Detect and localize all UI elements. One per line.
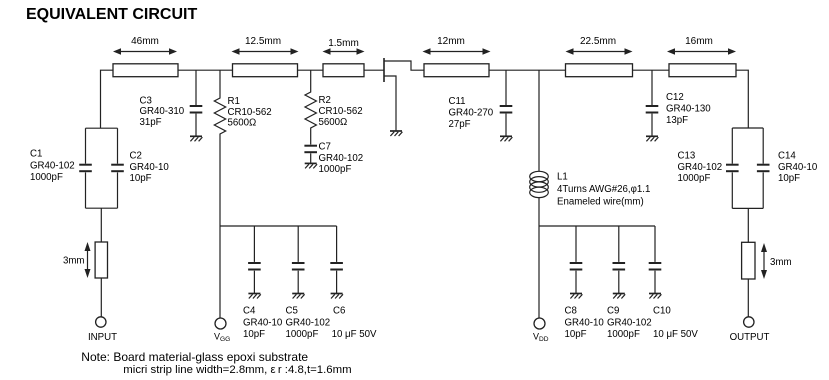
VGG rail bar [220, 225, 337, 227]
wire: rail to VDD terminal [538, 226, 540, 318]
transistor Q1 collector lead [384, 61, 424, 70]
wire: 22.5mm line to 16mm line [633, 69, 669, 71]
label C5 [286, 306, 331, 341]
capacitor C5 [292, 226, 305, 294]
INPUT terminal [96, 317, 106, 327]
wire: 12.5mm line to 1.5mm line [298, 69, 324, 71]
ground (transistor emitter) [390, 131, 402, 136]
transistor Q1 bar [383, 58, 385, 82]
label C11 [449, 96, 494, 130]
svg-text:C8: C8 [565, 306, 577, 317]
svg-text:C6: C6 [333, 306, 345, 317]
microstrip line 12mm [424, 64, 489, 77]
ground (C6) [331, 294, 343, 299]
capacitor C3 [190, 70, 203, 136]
dimension 22.5mm [566, 36, 633, 55]
svg-text:GR40-310: GR40-310 [140, 106, 185, 117]
wire: input corner to 46mm line [101, 70, 114, 128]
ground (C7) [305, 163, 317, 168]
svg-text:1000pF: 1000pF [286, 329, 319, 340]
svg-text:GR40-10: GR40-10 [778, 162, 818, 173]
svg-text:OUTPUT: OUTPUT [730, 332, 770, 343]
dimension 12.5mm [232, 36, 299, 55]
svg-text:C5: C5 [286, 306, 298, 317]
svg-text:GR40-102: GR40-102 [678, 162, 723, 173]
svg-text:Note: Board material-glass epo: Note: Board material-glass epoxi substra… [81, 350, 308, 364]
dimension 12mm [423, 36, 491, 55]
svg-text:5600Ω: 5600Ω [228, 118, 257, 129]
svg-text:C9: C9 [607, 306, 619, 317]
label C13 [678, 151, 723, 185]
resistor R2 [305, 70, 316, 144]
svg-text:46mm: 46mm [131, 36, 159, 47]
ground (C12) [646, 136, 658, 141]
label L1 [557, 172, 650, 208]
svg-text:16mm: 16mm [685, 36, 713, 47]
label C12 [666, 92, 711, 126]
wire: block to 3mm stub [100, 208, 102, 242]
transistor Q1 emitter lead [384, 76, 396, 131]
svg-text:10pF: 10pF [778, 173, 800, 184]
svg-text:13pF: 13pF [666, 115, 688, 126]
svg-text:EQUIVALENT CIRCUIT: EQUIVALENT CIRCUIT [26, 6, 197, 23]
svg-text:4Turns AWG#26,φ1.1: 4Turns AWG#26,φ1.1 [557, 184, 650, 195]
capacitor C12 [646, 70, 659, 136]
wire: 16mm line to output corner [736, 70, 748, 128]
svg-text:1000pF: 1000pF [607, 329, 640, 340]
svg-text:CR10-562: CR10-562 [228, 107, 272, 118]
wire: 1.5mm line to transistor base [364, 69, 384, 71]
svg-text:5600Ω: 5600Ω [319, 117, 348, 128]
svg-text:12.5mm: 12.5mm [245, 36, 281, 47]
svg-text:27pF: 27pF [449, 119, 471, 130]
svg-text:C3: C3 [140, 96, 152, 107]
output parallel block bottom bar [732, 207, 763, 209]
label C8 [565, 306, 605, 341]
svg-text:GR40-10: GR40-10 [130, 162, 170, 173]
svg-text:GR40-10: GR40-10 [243, 318, 283, 329]
wire: 46mm line to 12.5mm line [178, 69, 233, 71]
capacitor C4 [248, 226, 261, 294]
label C9 [607, 306, 652, 341]
label C7 [319, 142, 364, 176]
capacitor C1 [79, 128, 92, 208]
microstrip line 1.5mm [323, 64, 364, 77]
svg-text:GR40-102: GR40-102 [607, 318, 652, 329]
svg-text:12mm: 12mm [437, 36, 465, 47]
microstrip line 46mm [113, 64, 178, 77]
inductor L1 [530, 70, 549, 226]
svg-text:31pF: 31pF [140, 117, 162, 128]
dimension 46mm [113, 36, 177, 55]
ground (C9) [613, 294, 625, 299]
svg-text:C12: C12 [666, 92, 684, 103]
svg-text:10 μF 50V: 10 μF 50V [332, 329, 377, 340]
label C10 [653, 306, 698, 341]
label C1 [30, 149, 75, 184]
svg-text:micri strip line width=2.8mm,: micri strip line width=2.8mm, ε r :4.8,t… [123, 364, 351, 376]
output parallel block C13/C14 top bar [732, 127, 763, 129]
wire: rail to VGG terminal [219, 226, 221, 318]
ground (C8) [570, 294, 582, 299]
svg-text:1000pF: 1000pF [678, 173, 711, 184]
microstrip line 12.5mm [233, 64, 298, 77]
svg-text:1000pF: 1000pF [30, 172, 63, 183]
3mm microstrip stub (input) [95, 242, 107, 278]
svg-text:3mm: 3mm [770, 257, 792, 268]
svg-text:1.5mm: 1.5mm [328, 38, 359, 49]
dimension 1.5mm [323, 38, 365, 55]
capacitor C14 [757, 128, 770, 208]
label C2 [130, 151, 170, 185]
wire: 3mm stub to OUTPUT terminal [747, 279, 749, 317]
svg-text:GR40-102: GR40-102 [319, 153, 364, 164]
svg-text:C7: C7 [319, 142, 331, 153]
capacitor C9 [613, 226, 626, 294]
VDD rail bar [539, 225, 655, 227]
svg-text:C10: C10 [653, 306, 671, 317]
ground (C3) [190, 136, 202, 141]
svg-text:R2: R2 [319, 95, 331, 106]
svg-text:C14: C14 [778, 151, 796, 162]
capacitor C7 [304, 146, 317, 164]
microstrip line 16mm [669, 64, 736, 77]
svg-text:1000pF: 1000pF [319, 164, 352, 175]
input parallel block bottom bar [86, 207, 118, 209]
label C4 [243, 306, 283, 341]
wire: 12mm line to 22.5mm line [489, 69, 566, 71]
svg-text:INPUT: INPUT [88, 332, 117, 343]
svg-text:GR40-102: GR40-102 [30, 161, 75, 172]
ground (C10) [649, 294, 661, 299]
svg-text:C13: C13 [678, 151, 696, 162]
svg-text:C11: C11 [449, 96, 466, 107]
svg-text:GR40-102: GR40-102 [286, 318, 331, 329]
microstrip line 22.5mm [566, 64, 633, 77]
svg-text:VDD: VDD [533, 332, 549, 344]
ground (C5) [292, 294, 304, 299]
capacitor C8 [570, 226, 583, 294]
svg-text:R1: R1 [228, 96, 240, 107]
dimension 16mm [667, 36, 736, 55]
OUTPUT terminal [744, 317, 754, 327]
svg-text:C1: C1 [30, 149, 42, 160]
svg-text:10pF: 10pF [130, 173, 152, 184]
svg-text:GR40-270: GR40-270 [449, 108, 494, 119]
input parallel block C1/C2 top bar [86, 127, 118, 129]
capacitor C10 [649, 226, 662, 294]
svg-text:CR10-562: CR10-562 [319, 106, 363, 117]
svg-text:22.5mm: 22.5mm [580, 36, 616, 47]
svg-text:10 μF 50V: 10 μF 50V [653, 329, 698, 340]
label C6 [332, 306, 377, 341]
ground (C4) [248, 294, 260, 299]
svg-text:GR40-130: GR40-130 [666, 103, 711, 114]
svg-text:GR40-10: GR40-10 [565, 318, 605, 329]
VDD terminal [534, 318, 545, 329]
resistor R1 [214, 70, 225, 226]
capacitor C2 [111, 128, 124, 208]
label C14 [778, 151, 818, 185]
ground (C11) [500, 136, 512, 141]
label C3 [140, 96, 185, 129]
capacitor C13 [726, 128, 739, 208]
svg-text:C4: C4 [243, 306, 256, 317]
svg-text:L1: L1 [557, 172, 568, 183]
wire: output block to 3mm stub [747, 208, 749, 242]
svg-text:3mm: 3mm [63, 256, 85, 267]
label R1 [228, 96, 272, 129]
svg-text:VGG: VGG [214, 332, 230, 344]
svg-text:10pF: 10pF [243, 329, 265, 340]
svg-text:C2: C2 [130, 151, 142, 162]
capacitor C6 [330, 226, 343, 294]
dimension 3mm (output) [761, 243, 792, 279]
wire: 3mm stub to INPUT terminal [100, 278, 102, 317]
svg-text:Enameled wire(mm): Enameled wire(mm) [557, 197, 644, 208]
svg-text:10pF: 10pF [565, 329, 587, 340]
label R2 [319, 95, 363, 128]
capacitor C11 [500, 70, 513, 136]
VGG terminal [215, 318, 226, 329]
dimension 3mm (input) [63, 242, 91, 278]
3mm microstrip stub (output) [742, 242, 755, 279]
